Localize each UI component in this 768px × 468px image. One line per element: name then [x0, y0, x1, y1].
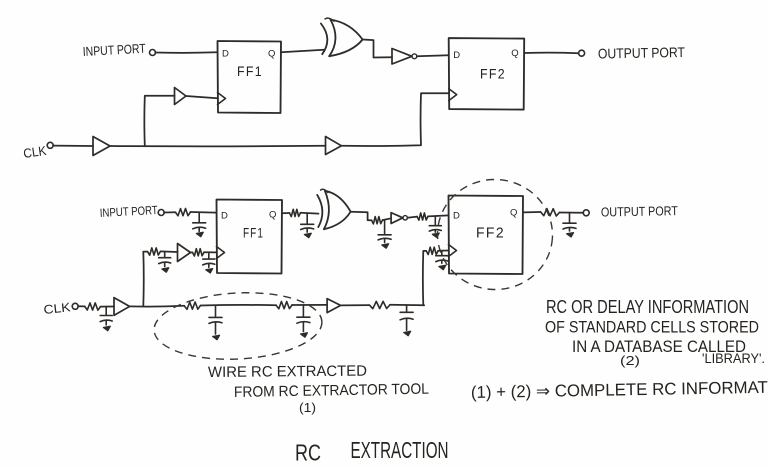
terminal: input port (top) — [150, 50, 156, 56]
wire FF1 Q to XOR gate (top) — [281, 50, 324, 53]
wire R6 to FF2 D — [428, 215, 449, 216]
svg-text:FF2: FF2 — [476, 225, 505, 242]
wire inverter to R6 — [407, 217, 417, 218]
wire R8 to output port (bottom) — [559, 212, 583, 214]
wire input port to R1 — [164, 211, 176, 213]
svg-text:'LIBRARY'.: 'LIBRARY'. — [702, 350, 765, 366]
svg-text:D: D — [222, 49, 229, 60]
wire FF2 Q to R8 — [523, 211, 541, 213]
buffer U5 on clk line (top) — [326, 137, 342, 155]
capacitor C1 (input net) — [193, 212, 206, 231]
svg-text:OUTPUT PORT: OUTPUT PORT — [598, 44, 686, 62]
svg-text:Q: Q — [268, 49, 275, 60]
ground (C9) — [103, 326, 110, 330]
terminal: output port (top) — [579, 50, 585, 56]
wire buffer to FF2 clock pin (top) — [342, 93, 449, 146]
ground (C7) — [439, 265, 446, 269]
inverter U2 (top) — [392, 49, 412, 65]
wire clk to buffer (top) — [53, 145, 93, 147]
svg-text:FF1: FF1 — [243, 225, 264, 241]
wire FF2 Q to output port (top) — [524, 52, 578, 55]
wire R2 to buffer — [161, 250, 178, 253]
resistor R2 (FF1 clock net) — [148, 248, 161, 255]
resistor R9 (clk net) — [85, 303, 101, 310]
ground (C8) — [567, 233, 574, 237]
wire buffer to R3 — [191, 251, 193, 253]
ground (C12) — [404, 331, 411, 335]
svg-text:RC OR DELAY INFORMATION: RC OR DELAY INFORMATION — [546, 297, 749, 317]
ground (C4) — [304, 233, 311, 237]
ground (C11) — [301, 333, 308, 337]
capacitor C9 (clk net) — [100, 307, 112, 325]
annotation: dashed loop around extracted wire RC — [152, 289, 323, 364]
wire clk branch up to FF1 clock path (bottom) — [143, 252, 147, 307]
capacitor C8 (output net) — [563, 213, 576, 231]
svg-text:(1): (1) — [299, 400, 316, 415]
svg-text:D: D — [221, 211, 228, 222]
capacitor C4 (FF1 Q net) — [301, 213, 314, 232]
buffer U6 to FF1 clock (bottom) — [178, 244, 191, 262]
wire clk trunk (top) — [110, 145, 326, 148]
capacitor C7 (FF2 clock net) — [436, 251, 448, 263]
annotation: dashed loop around standard cell FF2 — [434, 176, 556, 294]
svg-text:FF2: FF2 — [480, 66, 506, 82]
flip-flop FF1 (top) — [218, 41, 282, 113]
flip-flop FF2 (top) — [449, 38, 525, 110]
svg-text:Q: Q — [510, 208, 517, 219]
wire clk branch up to FF1 clock buffer (top) — [144, 96, 174, 146]
capacitor C2 (FF1 clock net) — [159, 252, 171, 267]
flip-flop FF2 (bottom) — [449, 196, 524, 275]
svg-text:RC: RC — [295, 440, 321, 466]
ground (C6) — [432, 233, 439, 237]
svg-text:CLK: CLK — [22, 143, 47, 161]
wire R7 to FF2 clock pin — [438, 250, 448, 252]
wire clk trunk segment 1 (bottom) — [130, 305, 185, 308]
buffer U10 on clk line (bottom) — [327, 299, 341, 313]
capacitor C5 (XOR output net) — [378, 220, 391, 242]
wire R3 to FF1 clock pin — [204, 251, 217, 253]
svg-text:FROM RC EXTRACTOR TOOL: FROM RC EXTRACTOR TOOL — [234, 381, 429, 401]
terminal: clk (top) — [47, 142, 53, 148]
resistor R10 (clk wire RC) — [184, 302, 200, 309]
resistor R6 (FF2 D net) — [417, 213, 428, 220]
inverter U8 (bottom) — [391, 213, 403, 224]
svg-text:OF STANDARD CELLS STORED: OF STANDARD CELLS STORED — [545, 318, 759, 337]
wire inverter to FF2 D (top) — [417, 55, 449, 56]
svg-text:Q: Q — [511, 48, 518, 59]
resistor R8 (output net) — [541, 209, 560, 216]
resistor R3 (FF1 clock net) — [193, 249, 205, 256]
wire input port to FF1 D (top) — [155, 51, 217, 54]
svg-text:OUTPUT PORT: OUTPUT PORT — [601, 203, 678, 219]
buffer U4 to FF1 clock (top) — [175, 88, 187, 105]
capacitor C11 (clk wire RC) — [297, 305, 310, 332]
wire XOR to R5 — [351, 212, 372, 221]
wire clk trunk segment 3 (bottom) — [292, 304, 327, 306]
resistor R4 (FF1 Q net) — [290, 209, 301, 216]
svg-text:WIRE RC EXTRACTED: WIRE RC EXTRACTED — [208, 363, 367, 381]
svg-text:(2): (2) — [620, 353, 640, 368]
buffer U9 on clk line (bottom) — [114, 298, 130, 316]
resistor R11 (clk wire RC) — [276, 302, 292, 309]
ground (C2) — [162, 268, 169, 272]
svg-text:CLK: CLK — [43, 300, 72, 317]
ground (C5) — [382, 244, 389, 248]
wire R9 to buffer — [101, 306, 115, 308]
wire clk riser to R7 (FF2 clock) — [423, 251, 426, 305]
XOR gate U1 (top) — [321, 24, 327, 55]
XOR gate U7 (bottom) — [317, 195, 322, 227]
flip-flop FF1 (bottom) — [217, 200, 283, 274]
ground (C3) — [206, 269, 213, 273]
wire clk to R9 — [78, 305, 85, 307]
buffer U3 on clk line (top) — [93, 137, 110, 156]
terminal: input port (bottom) — [158, 210, 164, 216]
resistor R5 (XOR output net) — [372, 217, 383, 224]
terminal: output port (bottom) — [583, 210, 589, 216]
wire FF1 Q to R4 — [282, 212, 290, 214]
resistor R12 (clk net) — [369, 301, 390, 308]
wire R1 to FF1 D — [191, 211, 217, 214]
resistor R1 (input net) — [176, 209, 191, 216]
ground (C1) — [196, 232, 203, 236]
svg-text:D: D — [453, 50, 460, 61]
ground (C10) — [213, 335, 220, 339]
wire R12 to FF2 clock riser — [390, 304, 424, 306]
terminal: clk (bottom) — [72, 303, 78, 309]
wire buffer to R12 — [341, 304, 370, 306]
capacitor C6 (FF2 D net) — [429, 216, 441, 232]
capacitor C10 (clk wire RC) — [209, 306, 222, 334]
capacitor C12 (clk net) — [400, 305, 413, 330]
wire XOR to inverter (top) — [363, 40, 392, 58]
capacitor C3 (FF1 clock net) — [203, 252, 215, 267]
wire R4 to XOR gate (bottom) — [301, 212, 319, 215]
svg-text:Q: Q — [269, 210, 276, 221]
wire clk trunk segment 2 (bottom) — [201, 304, 277, 307]
resistor R7 (FF2 clock net) — [426, 247, 438, 254]
svg-text:FF1: FF1 — [237, 63, 263, 79]
svg-text:D: D — [453, 211, 460, 222]
wire buffer to FF1 clock pin (top) — [186, 96, 218, 98]
wire R5 to inverter (bottom) — [383, 218, 392, 220]
svg-text:EXTRACTION: EXTRACTION — [351, 437, 449, 463]
